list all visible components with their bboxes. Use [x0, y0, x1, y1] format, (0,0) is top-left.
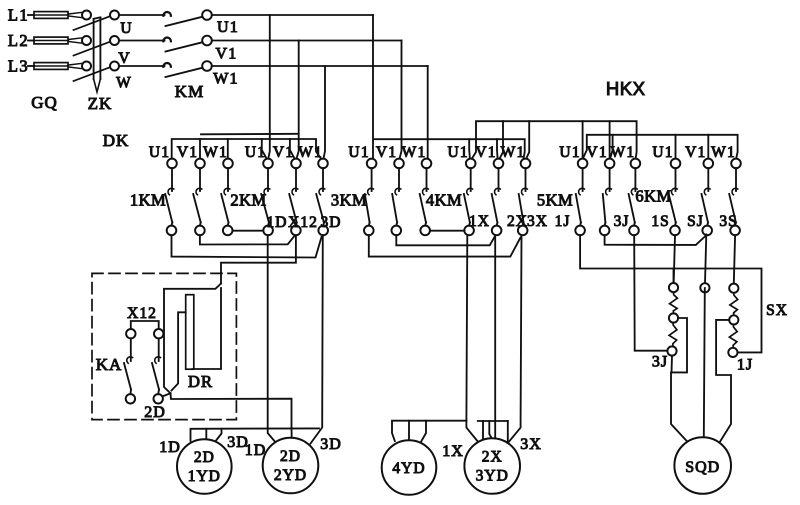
- terminal W1 group 3 top: [422, 159, 432, 169]
- svg-text:3J: 3J: [652, 354, 668, 371]
- wire 3S down to SX: [734, 235, 735, 283]
- label GQ (fuse group): [31, 93, 58, 112]
- travel switch SX right terminal 2: [729, 315, 738, 324]
- terminal group 4 pole 2 bottom: [492, 226, 502, 236]
- svg-text:HKX: HKX: [606, 78, 646, 99]
- wire link V1g1 to X12: [200, 235, 294, 244]
- travel switch SX right terminal 1: [729, 284, 738, 293]
- svg-text:X12: X12: [127, 305, 157, 322]
- svg-text:3J: 3J: [614, 213, 630, 230]
- svg-text:DK: DK: [103, 131, 130, 150]
- terminal V1 group 4 label: [475, 144, 496, 161]
- svg-text:SJ: SJ: [687, 213, 704, 230]
- label W: [116, 75, 132, 92]
- terminal V1 group 6 top: [704, 159, 714, 169]
- svg-text:5KM: 5KM: [537, 191, 573, 210]
- terminal W1 group 6 label: [711, 144, 736, 161]
- svg-text:V1: V1: [475, 144, 496, 161]
- wire SJ down to SQD column: [705, 235, 706, 284]
- knife switch ZK pole 3 left terminal: [82, 62, 91, 71]
- terminal X12 bridge: [131, 321, 159, 329]
- wire link W1g1 to 1D: [233, 230, 264, 232]
- svg-text:2D: 2D: [194, 449, 215, 466]
- travel switch SX left terminal 2: [669, 313, 678, 322]
- terminal U1 group 2 label: [245, 144, 266, 161]
- terminal group 2 pole 1 bottom: [263, 226, 273, 236]
- wire link W1g3 to 1X: [430, 230, 465, 232]
- label U: [120, 20, 132, 37]
- label 6KM: [635, 187, 671, 206]
- wire ZK to KM phase 2: [119, 40, 164, 42]
- node label X12: [288, 214, 318, 231]
- label 3D (motor B right): [320, 436, 342, 453]
- svg-text:W1: W1: [711, 144, 736, 161]
- knife switch ZK pole 2 right terminal: [110, 36, 119, 45]
- wire X12 to DR entry: [221, 235, 296, 283]
- svg-text:SX: SX: [766, 302, 788, 319]
- svg-text:X12: X12: [288, 214, 318, 231]
- svg-text:V1: V1: [376, 144, 397, 161]
- contact 1KM pole 2: [193, 168, 202, 226]
- svg-text:L1: L1: [8, 6, 29, 25]
- node label 1S: [651, 213, 669, 230]
- svg-text:1D: 1D: [267, 214, 288, 231]
- svg-text:U1: U1: [448, 144, 469, 161]
- label 1X (motor): [442, 443, 464, 460]
- svg-text:GQ: GQ: [31, 93, 58, 112]
- terminal V1 group 2 label: [273, 144, 294, 161]
- label W1 (KM output): [213, 71, 239, 88]
- bus over groups 5-6 lower: [584, 135, 738, 159]
- svg-text:U1: U1: [245, 144, 266, 161]
- label 3KM: [331, 191, 367, 210]
- terminal group 5 pole 1 bottom: [575, 226, 585, 236]
- label 3D (motor A right): [227, 434, 249, 451]
- contact 6KM pole 1: [669, 168, 678, 226]
- knife switch ZK pole 3 right terminal: [110, 62, 119, 71]
- label V: [118, 50, 130, 67]
- svg-text:4KM: 4KM: [426, 191, 462, 210]
- wire 1X down to motors: [466, 235, 478, 443]
- svg-text:U1: U1: [652, 144, 673, 161]
- svg-text:W: W: [116, 75, 132, 92]
- svg-text:2X: 2X: [507, 213, 528, 230]
- contactor KM main contact pole 3: [163, 61, 212, 77]
- node label 3S: [719, 213, 737, 230]
- wire link U1g1 to 3D: [172, 235, 322, 257]
- motor 1YD lead stubs: [206, 429, 221, 443]
- node label 1X: [469, 213, 490, 230]
- bus over groups 1-2 lower: [172, 139, 322, 160]
- svg-text:6KM: 6KM: [635, 187, 671, 206]
- label ZK: [88, 94, 113, 113]
- wire V1 drop to group 3: [400, 41, 402, 159]
- motor 2X/3YD: [464, 438, 520, 494]
- terminal W1 group 3 label: [402, 144, 427, 161]
- wire link U1g3 to 3X: [369, 235, 521, 256]
- svg-text:4YD: 4YD: [392, 460, 425, 477]
- phase label L2: [8, 31, 29, 50]
- wire 1S-g6 down to SX: [674, 235, 675, 283]
- svg-text:1X: 1X: [469, 213, 490, 230]
- fuse GQ phase L2: [28, 37, 82, 44]
- terminal V1 group 2 top: [291, 159, 301, 169]
- terminal U1 group 3 top: [367, 159, 377, 169]
- contact 2KM pole 1: [261, 168, 270, 226]
- contact 3KM pole 2: [392, 168, 401, 226]
- motor 4YD: [382, 440, 437, 495]
- contact 4KM pole 2: [492, 168, 501, 226]
- label HKX: [606, 78, 646, 99]
- motor 2YD lead stubs: [268, 428, 292, 444]
- terminal group 2 pole 2 bottom: [291, 226, 301, 236]
- terminal V1 group 5 label: [586, 144, 607, 161]
- relay contact KA right: [152, 338, 161, 394]
- contact 1KM pole 1: [165, 168, 174, 226]
- svg-text:KM: KM: [175, 82, 204, 101]
- node label 3D: [321, 214, 342, 231]
- svg-text:3KM: 3KM: [331, 191, 367, 210]
- wire U1 feed line: [212, 14, 373, 16]
- label V1 (KM output): [216, 46, 238, 63]
- svg-text:SQD: SQD: [685, 459, 720, 476]
- svg-text:1KM: 1KM: [130, 191, 166, 210]
- wire W1 feed line: [212, 65, 428, 67]
- motor 2D/1YD: [177, 439, 232, 494]
- node label SJ: [687, 213, 704, 230]
- svg-text:3YD: 3YD: [476, 468, 509, 485]
- svg-text:2KM: 2KM: [230, 191, 266, 210]
- terminal U1 group 4 label: [448, 144, 469, 161]
- wire 3X down to motor: [508, 235, 522, 443]
- knife switch ZK pole 1 left terminal: [82, 11, 91, 20]
- motor 4YD lead stubs: [409, 421, 426, 442]
- terminal V1 group 3 label: [376, 144, 397, 161]
- knife switch ZK pole 2 blade: [74, 42, 111, 56]
- label 1D (motor B left): [245, 442, 267, 459]
- svg-text:1S: 1S: [651, 213, 669, 230]
- svg-text:U1: U1: [348, 144, 369, 161]
- svg-text:V1: V1: [685, 144, 706, 161]
- terminal W1 group 4 top: [521, 159, 531, 169]
- wire 1J-tap to right SX column: [580, 235, 761, 352]
- svg-text:DR: DR: [188, 372, 213, 391]
- svg-text:U1: U1: [217, 19, 239, 36]
- fuse GQ phase L3: [28, 63, 82, 70]
- stub left SX top to bus: [673, 269, 675, 284]
- travel switch SX right spring lower: [729, 325, 737, 348]
- svg-text:1J: 1J: [555, 213, 571, 230]
- svg-text:1X: 1X: [442, 443, 464, 460]
- label 2KM: [230, 191, 266, 210]
- wire SX right to SQD: [716, 320, 731, 443]
- knife switch ZK operating bar with arrow: [94, 17, 101, 92]
- terminal group 1 pole 1 bottom: [167, 226, 177, 236]
- label KM: [175, 82, 204, 101]
- label X12: [127, 305, 157, 322]
- svg-text:1D: 1D: [159, 439, 181, 456]
- svg-text:W1: W1: [213, 71, 239, 88]
- svg-text:2YD: 2YD: [274, 467, 307, 484]
- bus over groups 3-4: [375, 139, 525, 159]
- terminal W1 group 6 top: [731, 159, 741, 169]
- bus HKX feed upper: [472, 121, 637, 159]
- node label 3J: [614, 213, 630, 230]
- motor 2D/2YD: [263, 438, 319, 494]
- wire U1 drop to group 2: [268, 15, 270, 159]
- terminal U1 group 1 top: [167, 159, 177, 169]
- contactor KM main contact pole 2: [163, 36, 212, 52]
- terminal U1 group 4 top: [466, 159, 476, 169]
- contact 4KM pole 1: [464, 168, 473, 226]
- terminal group 1 pole 2 bottom: [195, 226, 205, 236]
- terminal KA right bottom (2D): [154, 394, 163, 403]
- travel switch SX left terminal 3 (3J): [667, 346, 676, 355]
- wire 2X down to motor: [494, 235, 496, 437]
- terminal X12 left: [126, 329, 135, 338]
- wire ZK to KM phase 1: [119, 14, 164, 16]
- label DR: [188, 372, 213, 391]
- contact 1KM pole 3: [221, 168, 230, 226]
- phase label L1: [8, 6, 29, 25]
- svg-text:2D: 2D: [144, 404, 166, 421]
- bus over groups 1-2 upper: [201, 133, 297, 136]
- terminal U1 group 1 label: [149, 144, 170, 161]
- svg-text:3D: 3D: [320, 436, 342, 453]
- terminal V1 group 1 label: [177, 144, 198, 161]
- terminal W1 group 1 label: [203, 144, 228, 161]
- wire 2D to motor 2YD: [163, 393, 292, 428]
- wire middle column to SQD: [704, 288, 705, 437]
- wire 3D down to motor: [311, 235, 323, 443]
- contact 3KM pole 3: [420, 168, 429, 226]
- relay KA dashed enclosure: [92, 273, 236, 419]
- contact 2KM pole 3: [316, 168, 325, 226]
- svg-text:W1: W1: [402, 144, 427, 161]
- travel switch SX right spring upper: [730, 293, 738, 315]
- label 2D: [144, 404, 166, 421]
- label 3J: [652, 354, 668, 371]
- wire U1 drop to group 3: [372, 15, 374, 159]
- contactor KM main contact pole 1: [163, 10, 212, 26]
- wire ZK to KM phase 3: [119, 65, 164, 67]
- wire link 3J-tap to SJ: [605, 235, 706, 245]
- terminal V1 group 1 top: [195, 159, 205, 169]
- contact 6KM pole 3: [729, 168, 738, 226]
- relay contact KA left: [124, 338, 133, 394]
- label SX: [766, 302, 788, 319]
- svg-text:2D: 2D: [280, 448, 301, 465]
- knife switch ZK pole 1 right terminal: [110, 11, 119, 20]
- svg-text:V1: V1: [216, 46, 238, 63]
- fuse GQ phase L1: [28, 12, 82, 19]
- label 1KM: [130, 191, 166, 210]
- label KA: [96, 355, 123, 374]
- terminal V1 group 6 label: [685, 144, 706, 161]
- node label 1D: [267, 214, 288, 231]
- terminal W1 group 5 label: [611, 144, 636, 161]
- terminal U1 group 6 label: [652, 144, 673, 161]
- motor 3YD feed rail: [478, 421, 508, 442]
- svg-text:U1: U1: [149, 144, 170, 161]
- travel switch SX right terminal 3 (1J): [728, 348, 737, 357]
- svg-text:V1: V1: [273, 144, 294, 161]
- wire V1 feed line: [212, 40, 402, 42]
- label 3X (motor): [520, 436, 542, 453]
- terminal U1 group 5 label: [559, 144, 580, 161]
- svg-text:W1: W1: [298, 144, 323, 161]
- node label 2X: [507, 213, 528, 230]
- svg-text:W1: W1: [611, 144, 636, 161]
- node label 1J: [555, 213, 571, 230]
- node label 3X: [527, 213, 548, 230]
- terminal group 6 pole 2 bottom: [702, 226, 712, 236]
- svg-text:W1: W1: [203, 144, 228, 161]
- svg-text:ZK: ZK: [88, 94, 113, 113]
- travel switch SX left spring upper: [670, 292, 678, 313]
- contact 2KM pole 2: [289, 168, 298, 226]
- terminal group 3 pole 2 bottom: [392, 226, 402, 236]
- contact 3KM pole 1: [365, 168, 374, 226]
- svg-text:U1: U1: [559, 144, 580, 161]
- terminal W1 group 2 top: [318, 159, 328, 169]
- contact 6KM pole 2: [702, 168, 711, 226]
- wire W1 drop to group 2: [324, 66, 326, 159]
- svg-text:1J: 1J: [737, 357, 753, 374]
- motor feed rail 1D-2D-3D: [191, 428, 320, 440]
- svg-text:3X: 3X: [520, 436, 542, 453]
- motor SQD: [674, 437, 731, 494]
- terminal group 5 pole 2 bottom: [600, 226, 610, 236]
- label DK: [103, 131, 130, 150]
- terminal V1 group 4 top: [494, 159, 504, 169]
- wire V1 drop to group 2: [297, 41, 299, 159]
- label 1D (motor A left): [159, 439, 181, 456]
- terminal group 1 pole 3 bottom: [223, 226, 233, 236]
- terminal group 4 pole 3 bottom: [518, 226, 528, 236]
- svg-text:KA: KA: [96, 355, 123, 374]
- svg-text:U: U: [120, 20, 132, 37]
- terminal V1 group 5 top: [605, 159, 615, 169]
- svg-text:V: V: [118, 50, 130, 67]
- wire 1S-tap down to left SX column: [634, 235, 668, 351]
- contact 4KM pole 3: [519, 168, 528, 226]
- terminal group 6 pole 3 bottom: [730, 226, 740, 236]
- terminal W1 group 4 label: [501, 144, 526, 161]
- terminal group 2 pole 3 bottom: [318, 226, 328, 236]
- terminal U1 group 2 top: [263, 159, 273, 169]
- wire W1 drop to group 3: [427, 66, 429, 159]
- terminal W1 group 1 top: [223, 159, 233, 169]
- travel switch SX left spring lower: [669, 323, 677, 347]
- thermal element DR heater: [186, 295, 194, 370]
- travel switch SX left terminal 1: [669, 283, 678, 292]
- wire 1D down to motor rail: [267, 235, 269, 428]
- svg-text:V1: V1: [177, 144, 198, 161]
- knife switch ZK pole 2 left terminal: [82, 36, 91, 45]
- svg-text:V1: V1: [586, 144, 607, 161]
- svg-text:2X: 2X: [482, 449, 503, 466]
- svg-text:L3: L3: [8, 57, 29, 76]
- terminal group 3 pole 1 bottom: [364, 226, 374, 236]
- knife switch ZK pole 1 blade: [74, 16, 111, 30]
- svg-text:1YD: 1YD: [188, 468, 221, 485]
- terminal U1 group 6 top: [671, 159, 681, 169]
- label 4KM: [426, 191, 462, 210]
- terminal V1 group 3 top: [394, 159, 404, 169]
- terminal U1 group 5 top: [578, 159, 588, 169]
- phase label L3: [8, 57, 29, 76]
- contact 5KM pole 2: [603, 168, 612, 226]
- svg-text:W1: W1: [501, 144, 526, 161]
- knife switch ZK pole 3 blade: [74, 67, 111, 81]
- wire link V1g3 to 2X: [396, 235, 495, 245]
- contact 5KM pole 1: [576, 168, 585, 226]
- wire SX left to SQD: [671, 318, 688, 442]
- svg-text:L2: L2: [8, 31, 29, 50]
- terminal KA left bottom: [126, 394, 135, 403]
- terminal U1 group 3 label: [348, 144, 369, 161]
- contact 5KM pole 3: [629, 168, 638, 226]
- label 1J: [737, 357, 753, 374]
- svg-text:3X: 3X: [527, 213, 548, 230]
- terminal group 5 pole 3 bottom: [629, 226, 639, 236]
- terminal group 4 pole 1 bottom: [464, 226, 474, 236]
- svg-text:1D: 1D: [245, 442, 267, 459]
- svg-text:3D: 3D: [321, 214, 342, 231]
- label 5KM: [537, 191, 573, 210]
- terminal W1 group 2 label: [298, 144, 323, 161]
- motor feed rail 4YD: [392, 421, 466, 441]
- terminal SQD middle column: [700, 283, 709, 292]
- terminal group 6 pole 1 bottom: [670, 226, 680, 236]
- terminal group 3 pole 3 bottom: [420, 226, 430, 236]
- terminal W1 group 5 top: [631, 159, 641, 169]
- terminal X12 right: [154, 329, 163, 338]
- label U1 (KM output): [217, 19, 239, 36]
- svg-text:3S: 3S: [719, 213, 737, 230]
- thermal element DR wiring: [164, 284, 221, 394]
